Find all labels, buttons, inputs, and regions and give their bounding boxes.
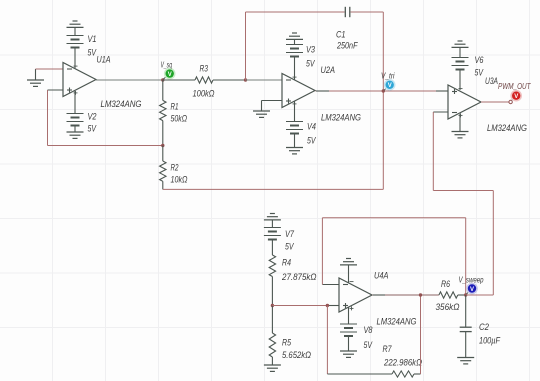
battery V6 5V	[452, 58, 469, 91]
svg-text:5V: 5V	[88, 48, 97, 58]
label V1	[88, 34, 97, 44]
label V1 value 5V	[88, 48, 97, 58]
wire feedback box left riser	[321, 218, 323, 285]
ground at U2A + input	[253, 101, 270, 118]
wire U3A + input pin stub	[436, 90, 448, 92]
label R4	[282, 258, 291, 268]
probe PWM_OUT	[510, 90, 522, 102]
wire U3A output	[481, 100, 512, 103]
svg-text:R2: R2	[171, 163, 179, 173]
ground above V1	[67, 21, 84, 36]
op-amp U4A	[339, 278, 372, 312]
svg-text:5V: 5V	[475, 68, 484, 78]
net label V_sweep	[459, 276, 484, 285]
label V6 value 5V	[475, 68, 484, 78]
capacitor C1 250nF	[345, 7, 350, 17]
wire U3A - input stub	[433, 111, 448, 113]
label C1 value 250nF	[336, 41, 358, 51]
label R5	[282, 338, 292, 348]
svg-text:5.652kΩ: 5.652kΩ	[282, 350, 311, 360]
svg-text:250nF: 250nF	[336, 41, 358, 51]
label R6	[441, 279, 450, 289]
wire R7 right riser	[420, 295, 422, 374]
label R2 value 10kΩ	[171, 175, 188, 185]
label C2	[479, 322, 489, 332]
ground below V4	[286, 134, 303, 154]
wire riser to V_sweep row	[492, 191, 494, 296]
ground above U4A	[340, 259, 357, 284]
wire U4A - input stub	[322, 284, 339, 286]
resistor R2 10kΩ	[160, 146, 166, 190]
svg-text:V2: V2	[88, 112, 97, 122]
svg-text:V7: V7	[285, 229, 295, 239]
svg-text:R3: R3	[200, 64, 209, 74]
wire C1 top left segment	[246, 11, 345, 13]
svg-text:R4: R4	[282, 258, 291, 268]
wire R7 left riser	[326, 306, 328, 375]
label V3 value 5V	[306, 59, 315, 69]
wire C1 riser left	[245, 12, 247, 80]
svg-text:222.986kΩ: 222.986kΩ	[383, 358, 422, 368]
battery V8 5V	[340, 307, 357, 336]
resistor R5 5.652kΩ	[269, 306, 275, 366]
svg-text:27.875kΩ: 27.875kΩ	[281, 272, 317, 282]
wire node to U2A - input	[246, 79, 283, 81]
svg-text:V_sq: V_sq	[161, 61, 173, 70]
label R6 value 356kΩ	[436, 302, 460, 312]
junction U4A+ to R7	[326, 304, 329, 307]
battery V4 5V	[286, 101, 303, 134]
label V8 value 5V	[364, 340, 373, 350]
op-amp U2A	[282, 74, 315, 108]
label U2A	[321, 65, 336, 75]
svg-text:10kΩ: 10kΩ	[171, 175, 188, 185]
svg-text:V4: V4	[307, 122, 316, 132]
ground below R5	[264, 365, 281, 371]
svg-text:LM324ANG: LM324ANG	[101, 99, 142, 109]
op-amp U1A	[63, 63, 96, 97]
ground below U3A	[452, 114, 469, 138]
svg-text:U3A: U3A	[485, 76, 498, 86]
wire U1A output to node V_sq	[96, 79, 163, 81]
label U4A	[374, 271, 389, 281]
svg-text:R7: R7	[383, 344, 393, 354]
svg-text:V: V	[168, 72, 172, 78]
resistor R6 356kΩ	[439, 292, 466, 298]
svg-text:U4A: U4A	[374, 271, 389, 281]
wire feedback row to R1/R2 junction	[48, 145, 163, 147]
ground below V2	[67, 126, 84, 139]
svg-text:V: V	[388, 83, 392, 89]
wire U4A output pin stub	[373, 294, 385, 296]
battery V3 5V	[286, 45, 303, 82]
label V4	[307, 122, 316, 132]
label U1A part LM324ANG	[101, 99, 142, 109]
label V2	[88, 112, 97, 122]
svg-text:V1: V1	[88, 34, 97, 44]
wire U3A - riser down	[432, 112, 434, 191]
wire U2A output pin stub	[316, 90, 329, 92]
op-amp U3A	[448, 85, 481, 119]
label R5 value 5.652kΩ	[282, 350, 311, 360]
ground at U1A inverting input	[27, 69, 44, 86]
resistor R7 222.986kΩ	[327, 371, 420, 377]
resistor R1 50kΩ	[160, 80, 166, 146]
svg-text:U1A: U1A	[97, 55, 111, 65]
junction node V_tri	[382, 89, 385, 92]
label R7 value 222.986kΩ	[383, 358, 422, 368]
svg-text:V_tri: V_tri	[381, 72, 395, 81]
svg-text:5V: 5V	[88, 124, 97, 134]
resistor R3 100kΩ	[163, 77, 246, 83]
ground above V3	[286, 33, 303, 45]
svg-text:5V: 5V	[364, 340, 373, 350]
battery V7 5V	[264, 228, 281, 256]
wire U4A + input pin stub	[328, 305, 339, 307]
capacitor C2 100µF	[460, 295, 472, 358]
label U2A part LM324ANG	[321, 113, 361, 123]
wire feedback riser left	[47, 90, 49, 146]
junction node V_sq	[161, 78, 164, 81]
label C1	[336, 30, 346, 40]
junction R3 to C1 riser	[244, 78, 247, 81]
label V7	[285, 229, 295, 239]
wire U4A output row	[373, 294, 439, 296]
wire feedback box right riser	[465, 218, 467, 295]
svg-text:V_sweep: V_sweep	[459, 276, 484, 285]
svg-text:R1: R1	[171, 102, 179, 112]
junction node V_sweep	[464, 293, 467, 296]
label R4 value 27.875kΩ	[281, 272, 317, 282]
probe V_sq	[164, 68, 176, 80]
label U1A	[97, 55, 111, 65]
probe V_sweep	[466, 283, 478, 295]
label R7	[383, 344, 393, 354]
wire C1 top right segment	[351, 11, 384, 13]
wire R2 bottom row to V_tri riser	[163, 188, 383, 190]
svg-text:5V: 5V	[306, 59, 315, 69]
svg-text:V8: V8	[364, 325, 373, 335]
label V6	[475, 55, 484, 65]
svg-text:356kΩ: 356kΩ	[436, 302, 460, 312]
label C2 value 100µF	[479, 336, 500, 346]
junction output-R7	[419, 293, 422, 296]
wire feedback box top	[322, 217, 465, 219]
svg-text:50kΩ: 50kΩ	[171, 114, 188, 124]
svg-text:R5: R5	[282, 338, 292, 348]
net label V_tri	[381, 72, 395, 81]
label V2 value 5V	[88, 124, 97, 134]
wire R4 junction to U4A + input	[272, 305, 339, 307]
wire U2A output row to U3A	[316, 90, 449, 92]
label U3A	[485, 76, 498, 86]
svg-text:R6: R6	[441, 279, 450, 289]
label U4A part LM324ANG	[377, 317, 417, 327]
ground above V7	[264, 214, 281, 228]
label R3 value 100kΩ	[193, 89, 215, 99]
svg-text:5V: 5V	[285, 242, 294, 252]
wire V_tri riser	[382, 12, 384, 189]
label V8	[364, 325, 373, 335]
battery V2 5V	[67, 91, 84, 126]
svg-text:V: V	[470, 287, 474, 293]
wire ground to U1A - input	[36, 68, 64, 70]
label R1 value 50kΩ	[171, 114, 188, 124]
ground below C2	[457, 358, 474, 364]
svg-text:100kΩ: 100kΩ	[193, 89, 215, 99]
net label V_sq	[161, 61, 173, 70]
junction R4-R5-U4A+	[271, 304, 274, 307]
label R1	[171, 102, 179, 112]
junction R1-R2-feedback	[161, 144, 164, 147]
svg-text:U2A: U2A	[321, 65, 336, 75]
label V3	[306, 45, 315, 55]
wire U1A + input stub	[48, 89, 64, 91]
wire U3A - row right	[433, 190, 493, 192]
label V7 value 5V	[285, 242, 294, 252]
ground above V6	[452, 41, 469, 58]
wire V_sweep row right	[466, 294, 494, 296]
svg-text:C2: C2	[479, 322, 489, 332]
svg-text:V: V	[514, 94, 518, 100]
svg-text:PWM_OUT: PWM_OUT	[498, 82, 531, 91]
label R2	[171, 163, 179, 173]
resistor R4 27.875kΩ	[269, 255, 275, 306]
svg-text:5V: 5V	[307, 136, 316, 146]
svg-text:V3: V3	[306, 45, 315, 55]
svg-text:LM324ANG: LM324ANG	[321, 113, 361, 123]
wire U2A + input stub	[262, 100, 283, 102]
probe V_tri	[384, 79, 396, 91]
svg-text:LM324ANG: LM324ANG	[377, 317, 417, 327]
svg-text:LM324ANG: LM324ANG	[487, 123, 527, 133]
battery V1 5V	[67, 36, 84, 70]
svg-text:100µF: 100µF	[479, 336, 500, 346]
svg-text:C1: C1	[336, 30, 346, 40]
net label PWM_OUT	[498, 82, 531, 91]
ground below V8	[340, 336, 357, 357]
label R3	[200, 64, 209, 74]
label V4 value 5V	[307, 136, 316, 146]
label U3A part LM324ANG	[487, 123, 527, 133]
svg-text:V6: V6	[475, 55, 484, 65]
